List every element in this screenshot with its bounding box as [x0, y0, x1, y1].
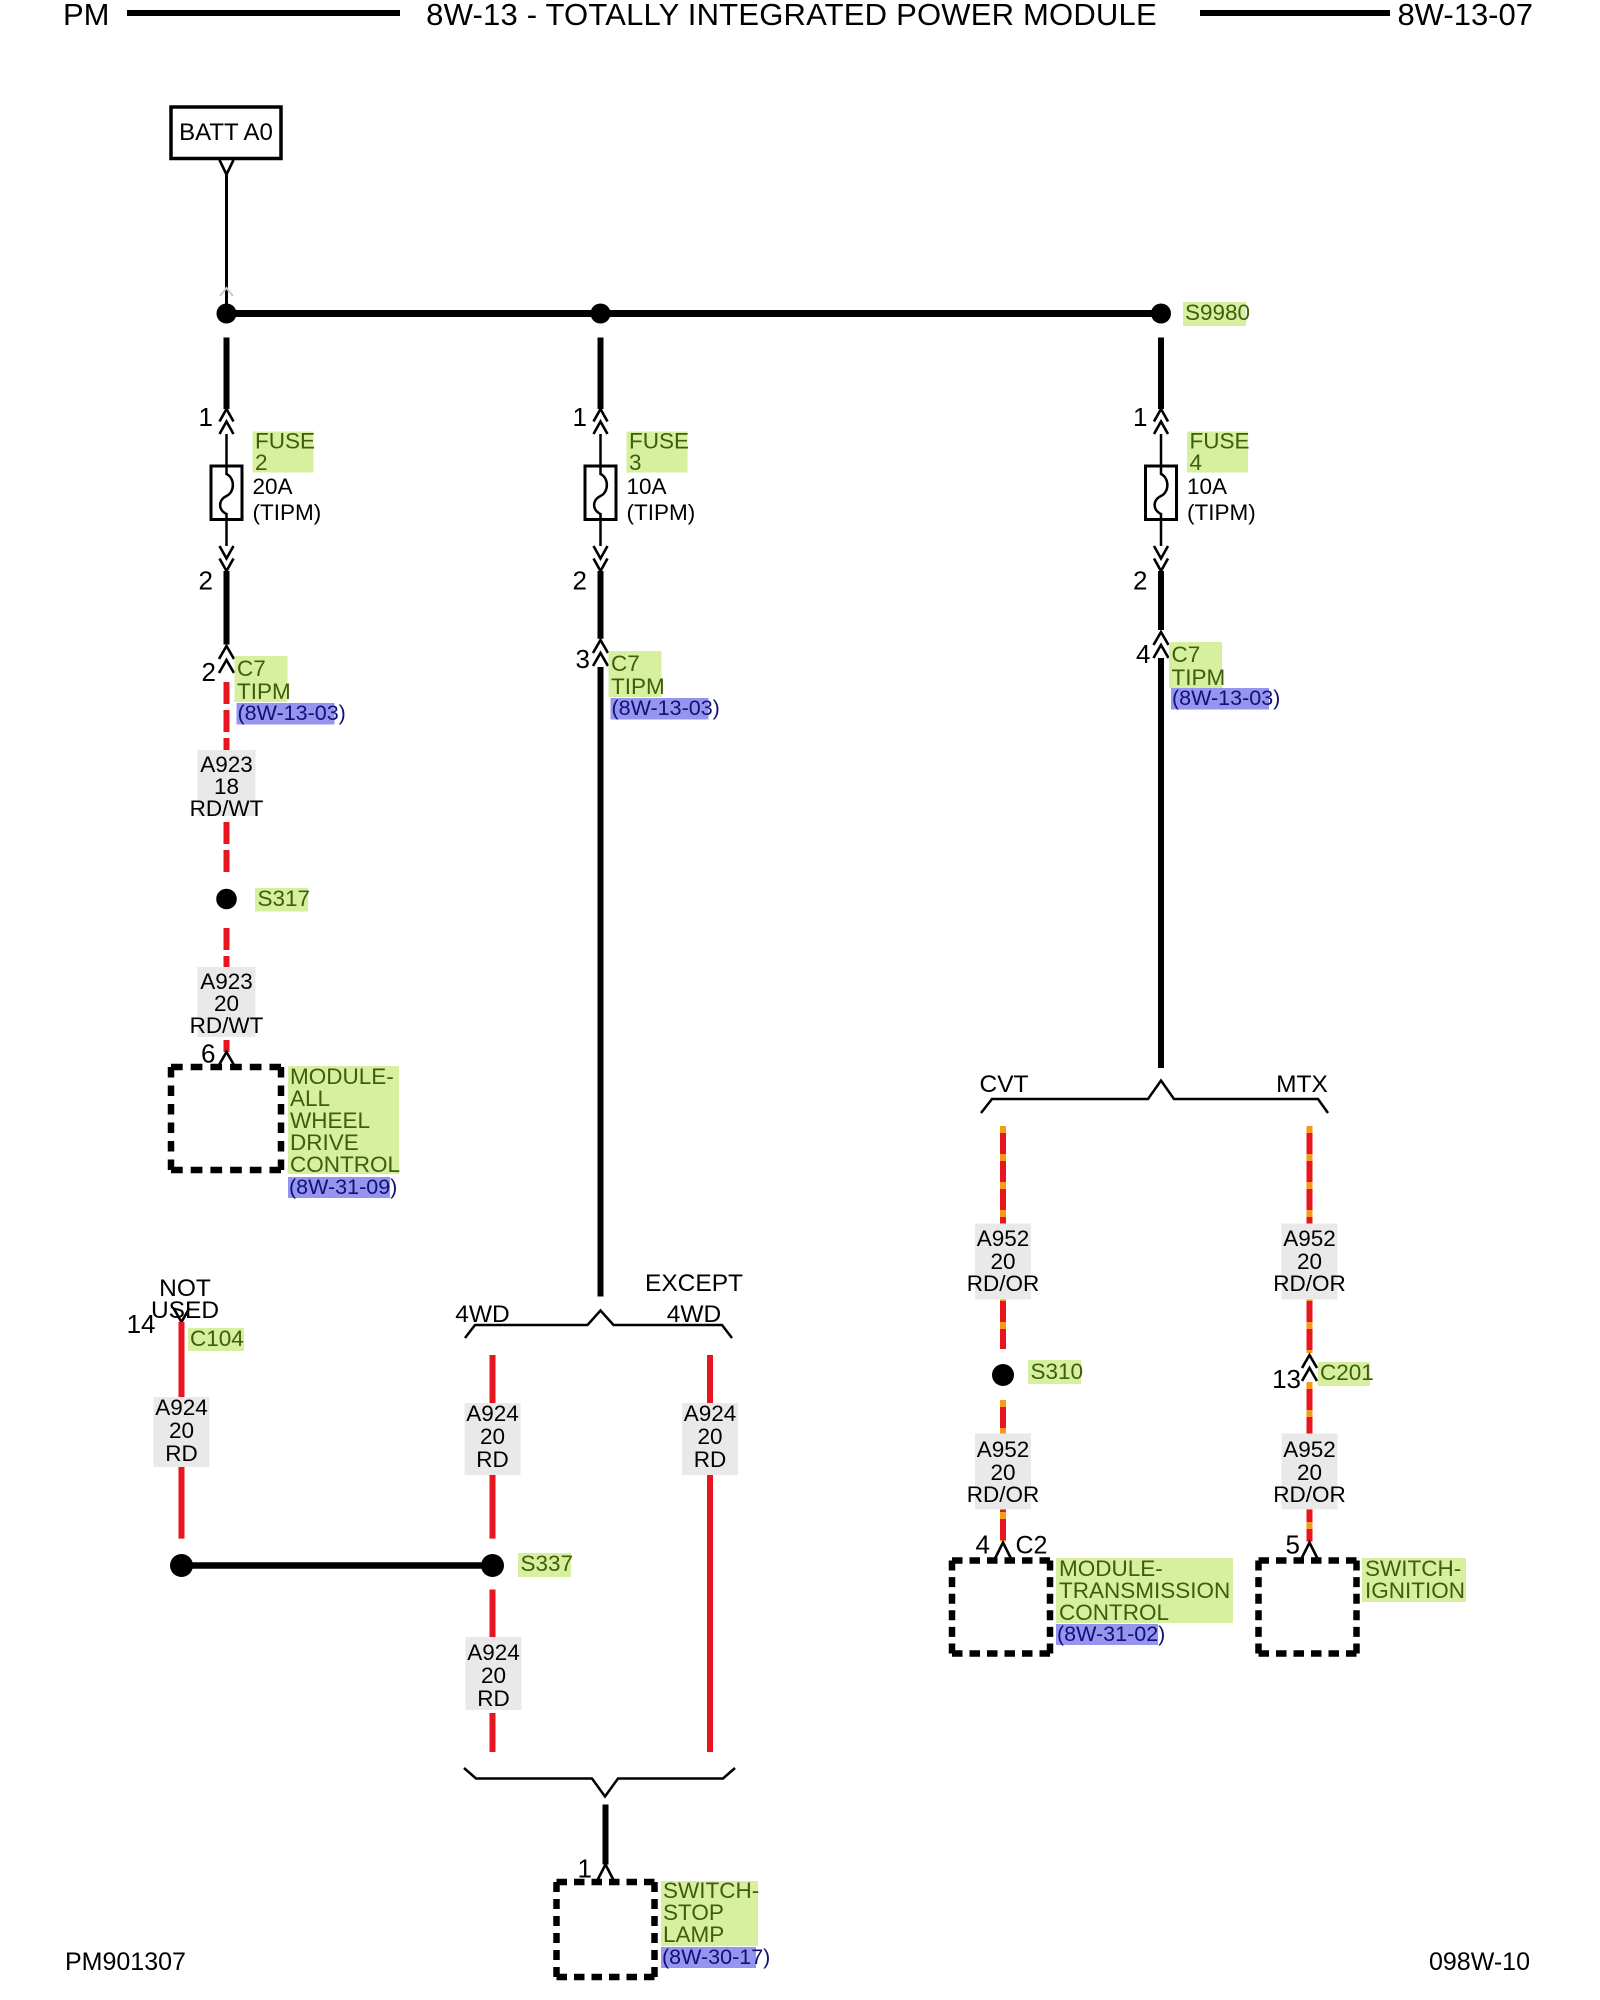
thin wire out of fuse 2: [225, 513, 228, 546]
svg-text:C7: C7: [1172, 642, 1201, 667]
battery feed box BATT A0: [171, 107, 281, 159]
svg-text:2: 2: [573, 566, 587, 596]
svg-text:A952: A952: [977, 1437, 1030, 1462]
junction dot right on S9980: [1151, 304, 1171, 324]
wire label A952 20 RD/OR (CVT lower): [967, 1434, 1040, 1510]
wire stub from bus down (column 600.5): [598, 338, 604, 410]
wire label A952 20 RD/OR (CVT upper): [967, 1224, 1040, 1300]
svg-text:RD/OR: RD/OR: [967, 1482, 1040, 1507]
svg-text:BATT A0: BATT A0: [179, 119, 273, 146]
svg-text:1: 1: [573, 402, 587, 432]
wire A952 RD/OR CVT upper: [1000, 1126, 1006, 1349]
svg-text:PM901307: PM901307: [65, 1948, 186, 1976]
svg-text:4WD: 4WD: [455, 1301, 509, 1328]
svg-text:RD/WT: RD/WT: [190, 1013, 264, 1038]
svg-text:PM: PM: [63, 0, 110, 32]
svg-text:20: 20: [480, 1424, 505, 1449]
wire A923 RD/WT lower segment: [224, 922, 230, 1052]
thick wire below fuse 3: [598, 571, 604, 639]
svg-text:14: 14: [127, 1309, 156, 1339]
svg-text:RD/OR: RD/OR: [967, 1271, 1040, 1296]
fuse 3 value label 10A (TIPM): [627, 474, 696, 525]
svg-text:10A: 10A: [1187, 474, 1227, 499]
svg-text:(8W-13-03): (8W-13-03): [612, 696, 720, 720]
wire A952 RD/OR CVT lower: [1000, 1400, 1006, 1542]
wire A924 RD EXCEPT 4WD branch: [707, 1355, 713, 1752]
thick wire below fuse 4: [1158, 571, 1164, 630]
svg-text:RD: RD: [477, 1686, 510, 1711]
header rule right: [1200, 10, 1390, 16]
svg-text:A952: A952: [1283, 1437, 1336, 1462]
fuse 2 value label 20A (TIPM): [253, 474, 322, 525]
svg-text:S310: S310: [1031, 1359, 1084, 1384]
faint chevron at bus joint: [220, 288, 233, 296]
long wire middle column down to split: [598, 667, 604, 1297]
svg-text:C201: C201: [1320, 1360, 1374, 1385]
svg-text:20: 20: [481, 1663, 506, 1688]
svg-text:(8W-13-03): (8W-13-03): [1172, 686, 1280, 710]
connector C7 chevrons pin 3 (column x=600.5): [593, 640, 608, 666]
C7 reference label (8W-13-03): [237, 701, 346, 725]
svg-text:5: 5: [1286, 1530, 1300, 1560]
svg-text:098W-10: 098W-10: [1429, 1948, 1530, 1976]
splice label S9980: [1183, 300, 1250, 326]
svg-text:C7: C7: [611, 651, 640, 676]
junction dot left on S9980: [217, 304, 237, 324]
svg-text:RD: RD: [476, 1447, 509, 1472]
svg-text:A952: A952: [977, 1226, 1030, 1251]
thin wire out of fuse 4: [1160, 513, 1163, 546]
svg-text:A924: A924: [466, 1401, 519, 1426]
svg-text:(TIPM): (TIPM): [253, 500, 322, 525]
thin wire into fuse 2: [225, 434, 228, 475]
svg-text:4: 4: [976, 1530, 990, 1560]
svg-text:(8W-30-17): (8W-30-17): [662, 1945, 770, 1969]
fuse 4 body: [1146, 466, 1177, 520]
svg-text:2: 2: [255, 450, 268, 475]
wire A923 RD/WT upper segment: [224, 676, 230, 873]
connector C201 chevrons pin 13: [1302, 1355, 1317, 1381]
svg-text:(8W-31-09): (8W-31-09): [289, 1175, 397, 1199]
long wire right column down to split: [1158, 658, 1164, 1068]
svg-text:4WD: 4WD: [667, 1301, 721, 1328]
wire A924 RD not-used branch: [179, 1322, 185, 1539]
wire label A924 20 RD (EXCEPT 4WD): [682, 1401, 738, 1475]
svg-text:RD: RD: [694, 1447, 727, 1472]
C7 TIPM label: [609, 651, 665, 699]
svg-text:CVT: CVT: [980, 1071, 1029, 1098]
header rule left: [127, 10, 400, 16]
connector label C201: [1318, 1360, 1374, 1386]
switch label SWITCH-STOP LAMP: [661, 1878, 759, 1947]
svg-text:LAMP: LAMP: [663, 1922, 724, 1947]
svg-text:2: 2: [202, 657, 216, 687]
module box MODULE-ALL WHEEL DRIVE CONTROL: [171, 1067, 281, 1170]
wire label A924 20 RD (4WD): [465, 1401, 521, 1475]
connector chevrons pin 2 of fuse 4: [1154, 546, 1168, 571]
splice crossbar wire at S337: [182, 1562, 493, 1569]
svg-text:8W-13 - TOTALLY INTEGRATED POW: 8W-13 - TOTALLY INTEGRATED POWER MODULE: [426, 0, 1157, 32]
svg-text:IGNITION: IGNITION: [1365, 1578, 1465, 1603]
switch box SWITCH-IGNITION: [1259, 1561, 1357, 1654]
split brace 4WD / EXCEPT 4WD: [465, 1311, 732, 1339]
svg-text:C7: C7: [237, 656, 266, 681]
C7 reference label (8W-13-03): [611, 696, 720, 720]
svg-text:13: 13: [1272, 1364, 1301, 1394]
C7 TIPM label: [1169, 642, 1225, 690]
svg-text:3: 3: [576, 644, 590, 674]
branch label EXCEPT 4WD: [645, 1270, 743, 1328]
splice label S317: [255, 886, 310, 912]
C7 reference label (8W-13-03): [1171, 686, 1280, 710]
fuse 3 label FUSE 3: [627, 429, 690, 476]
connector chevrons pin 2 of fuse 3: [594, 546, 608, 571]
connector chevrons pin 2 of fuse 2: [220, 546, 234, 571]
svg-text:2: 2: [199, 566, 213, 596]
svg-text:EXCEPT: EXCEPT: [645, 1270, 743, 1297]
svg-text:RD/WT: RD/WT: [190, 796, 264, 821]
splice label S310: [1028, 1359, 1083, 1384]
svg-text:4: 4: [1190, 450, 1203, 475]
connector chevrons pin 1 of fuse 2: [220, 409, 234, 434]
svg-text:8W-13-07: 8W-13-07: [1397, 0, 1533, 32]
module reference label (8W-31-02): [1056, 1622, 1165, 1646]
merge brace above stop lamp switch: [464, 1768, 735, 1797]
wire stub from bus down (column 226.5): [224, 338, 230, 410]
connector label C104: [188, 1326, 244, 1351]
splice dot S317: [216, 889, 237, 910]
fuse 2 label FUSE 2: [253, 429, 316, 476]
module label MODULE-TRANSMISSION CONTROL: [1056, 1556, 1233, 1625]
module reference label (8W-31-09): [288, 1175, 397, 1199]
thick wire below fuse 2: [224, 571, 230, 645]
svg-text:A924: A924: [684, 1401, 737, 1426]
thin wire into fuse 3: [599, 434, 602, 475]
splice dot S310: [992, 1364, 1014, 1386]
fuse 3 body: [585, 466, 616, 520]
connector chevron pin 1 stop lamp: [598, 1865, 614, 1881]
switch reference label (8W-30-17): [661, 1945, 770, 1969]
svg-text:A952: A952: [1283, 1226, 1336, 1251]
wire A952 RD/OR MTX upper: [1307, 1126, 1313, 1353]
svg-text:A924: A924: [467, 1640, 520, 1665]
module label MODULE-ALL WHEEL DRIVE CONTROL: [288, 1064, 400, 1177]
svg-text:S9980: S9980: [1185, 300, 1250, 325]
module box MODULE-TRANSMISSION CONTROL: [952, 1561, 1050, 1654]
svg-text:USED: USED: [151, 1297, 219, 1324]
junction dot middle on S9980: [591, 304, 611, 324]
junction dot S337: [481, 1554, 504, 1577]
svg-text:2: 2: [1133, 566, 1147, 596]
svg-text:3: 3: [629, 450, 642, 475]
svg-text:RD/OR: RD/OR: [1273, 1271, 1346, 1296]
connector C7 chevrons pin 4 (column x=1161.0): [1154, 632, 1169, 658]
connector chevron pin 6: [219, 1052, 234, 1065]
svg-text:C2: C2: [1016, 1532, 1048, 1560]
svg-text:S337: S337: [521, 1551, 574, 1576]
svg-text:RD: RD: [165, 1441, 198, 1466]
wire label A923 18 RD/WT: [190, 750, 264, 821]
NOT USED branch label: [151, 1275, 219, 1324]
wire A924 RD to merge brace: [490, 1713, 496, 1752]
fuse 2 body: [211, 466, 242, 520]
svg-text:20: 20: [697, 1424, 722, 1449]
svg-text:4: 4: [1136, 639, 1150, 669]
wire A952 RD/OR MTX lower: [1307, 1382, 1313, 1542]
switch label SWITCH-IGNITION: [1362, 1556, 1466, 1603]
connector chevron pin 4: [995, 1543, 1011, 1559]
C7 TIPM label: [235, 656, 291, 704]
wire label A924 20 RD (below S337): [466, 1637, 522, 1711]
svg-text:MTX: MTX: [1276, 1071, 1328, 1098]
svg-text:1: 1: [1133, 402, 1147, 432]
svg-text:1: 1: [199, 402, 213, 432]
wire label A952 20 RD/OR (MTX upper): [1273, 1224, 1346, 1300]
svg-text:C104: C104: [190, 1326, 244, 1351]
connector chevron pin 5: [1302, 1543, 1318, 1559]
svg-text:20: 20: [169, 1418, 194, 1443]
svg-text:(8W-31-02): (8W-31-02): [1057, 1622, 1165, 1646]
switch box SWITCH-STOP LAMP: [557, 1882, 655, 1977]
connector V C104: [174, 1308, 190, 1322]
split brace CVT / MTX: [981, 1081, 1328, 1114]
svg-text:CONTROL: CONTROL: [290, 1152, 400, 1177]
splice bus wire S9980: [227, 310, 1162, 317]
fuse 4 value label 10A (TIPM): [1187, 474, 1256, 525]
svg-text:A924: A924: [155, 1395, 208, 1420]
junction dot left at S337: [170, 1554, 193, 1577]
connector chevrons pin 1 of fuse 3: [594, 409, 608, 434]
svg-text:S317: S317: [258, 886, 311, 911]
wire stub from bus down (column 1161.0): [1158, 338, 1164, 410]
connector C7 chevrons pin 2 (column x=226.5): [219, 646, 234, 673]
wire from BATT A0 down to splice bus: [225, 175, 228, 311]
splice label S337: [518, 1551, 573, 1577]
connector chevrons pin 1 of fuse 4: [1154, 409, 1168, 434]
thin wire into fuse 4: [1160, 434, 1163, 475]
svg-text:10A: 10A: [627, 474, 667, 499]
thin wire out of fuse 3: [599, 513, 602, 546]
wire A924 RD 4WD branch upper: [490, 1355, 496, 1539]
wire label A924 20 RD (not used): [154, 1395, 210, 1467]
wire A924 RD below S337: [490, 1590, 496, 1638]
svg-text:(TIPM): (TIPM): [1187, 500, 1256, 525]
svg-text:(8W-13-03): (8W-13-03): [238, 701, 346, 725]
connector V below BATT A0: [220, 160, 234, 175]
wire label A952 20 RD/OR (MTX lower): [1273, 1434, 1346, 1510]
svg-text:RD/OR: RD/OR: [1273, 1482, 1346, 1507]
wire label A923 20 RD/WT: [190, 967, 264, 1038]
wire into stop lamp switch: [603, 1805, 609, 1865]
svg-text:(TIPM): (TIPM): [627, 500, 696, 525]
svg-text:20A: 20A: [253, 474, 293, 499]
fuse 4 label FUSE 4: [1187, 429, 1250, 476]
